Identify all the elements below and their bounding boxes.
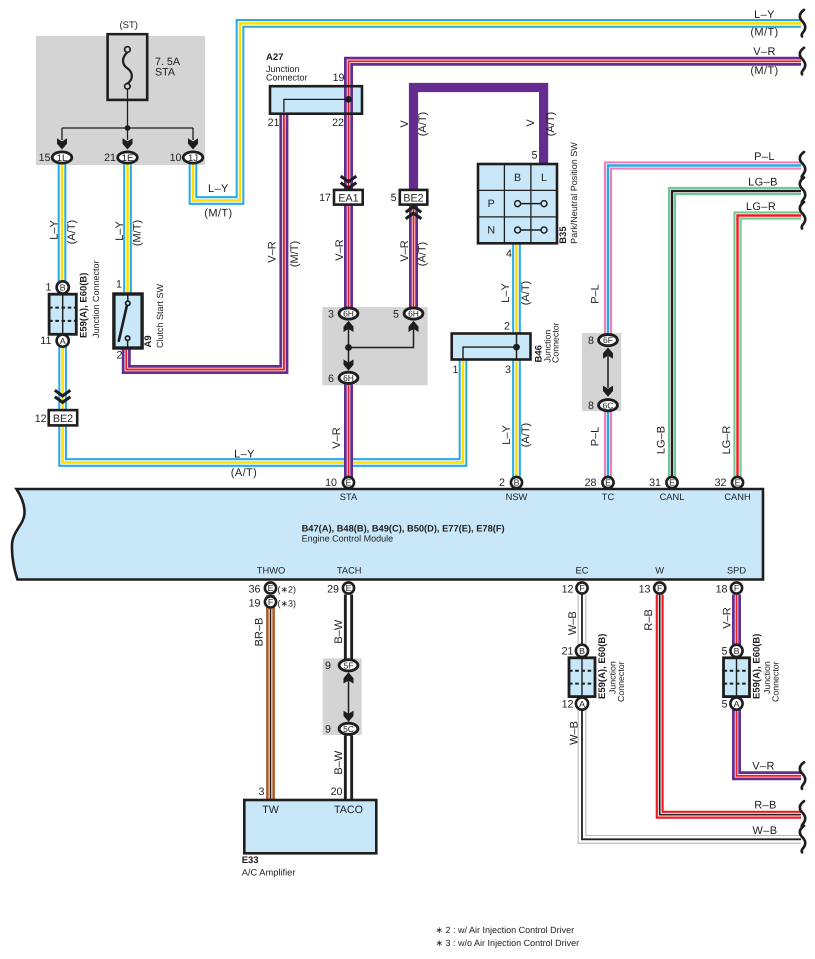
svg-text:(∗2): (∗2)	[278, 585, 297, 595]
svg-text:Connector: Connector	[266, 73, 308, 83]
svg-text:V–R: V–R	[399, 240, 411, 261]
svg-text:(M/T): (M/T)	[289, 241, 301, 267]
svg-text:NSW: NSW	[506, 492, 528, 502]
svg-text:1: 1	[116, 279, 122, 291]
svg-text:(A/T): (A/T)	[66, 220, 78, 244]
svg-text:L–Y: L–Y	[208, 183, 229, 195]
svg-text:(A/T): (A/T)	[520, 281, 532, 305]
svg-text:EC: EC	[576, 566, 589, 576]
svg-text:W–B: W–B	[569, 721, 581, 745]
svg-text:V: V	[525, 119, 537, 127]
svg-text:20: 20	[331, 786, 343, 798]
svg-text:V–R: V–R	[722, 607, 734, 628]
svg-text:3: 3	[328, 309, 334, 321]
svg-text:E: E	[735, 478, 741, 488]
svg-text:L–Y: L–Y	[500, 283, 512, 303]
svg-text:5: 5	[532, 150, 538, 162]
svg-text:Connector: Connector	[616, 661, 626, 702]
svg-text:E: E	[346, 478, 352, 488]
svg-text:21: 21	[562, 645, 574, 657]
svg-text:V–R: V–R	[753, 46, 776, 58]
svg-text:P–L: P–L	[590, 284, 602, 304]
svg-text:5C: 5C	[343, 724, 354, 734]
svg-text:LG–R: LG–R	[721, 426, 733, 455]
svg-text:19: 19	[333, 72, 345, 84]
svg-text:A27: A27	[266, 52, 283, 63]
svg-text:(A/T): (A/T)	[520, 423, 532, 447]
svg-text:SPD: SPD	[727, 566, 746, 576]
svg-text:TW: TW	[262, 804, 280, 816]
svg-text:(M/T): (M/T)	[750, 65, 778, 77]
svg-text:R–B: R–B	[754, 800, 777, 812]
svg-text:R–B: R–B	[643, 609, 655, 630]
svg-text:B: B	[60, 283, 66, 293]
svg-text:A: A	[60, 336, 66, 346]
svg-text:A/C Amplifier: A/C Amplifier	[242, 868, 296, 878]
svg-text:W–B: W–B	[752, 825, 777, 837]
svg-text:V–R: V–R	[752, 761, 775, 773]
svg-text:BE2: BE2	[53, 413, 73, 425]
svg-text:1J: 1J	[188, 153, 198, 164]
svg-text:L: L	[541, 172, 547, 184]
svg-text:5: 5	[722, 698, 728, 710]
svg-text:1L: 1L	[57, 153, 68, 164]
svg-text:(∗3): (∗3)	[278, 598, 297, 608]
svg-text:TACO: TACO	[334, 804, 363, 816]
svg-text:CANL: CANL	[660, 492, 685, 502]
svg-text:9: 9	[325, 724, 331, 736]
svg-text:Junction Connector: Junction Connector	[91, 260, 101, 338]
svg-text:∗ 2 : w/ Air Injection Control: ∗ 2 : w/ Air Injection Control Driver	[436, 925, 575, 935]
svg-text:B: B	[514, 478, 520, 488]
svg-text:5: 5	[393, 309, 399, 321]
svg-text:2: 2	[117, 350, 123, 362]
svg-text:A9: A9	[143, 335, 154, 347]
svg-text:F: F	[579, 583, 585, 593]
svg-text:6F: 6F	[603, 335, 613, 345]
svg-text:32: 32	[715, 477, 727, 489]
svg-text:6H: 6H	[408, 309, 419, 319]
svg-text:5: 5	[391, 192, 397, 204]
svg-text:L–Y: L–Y	[754, 9, 775, 21]
svg-text:12: 12	[562, 698, 574, 710]
svg-text:V–R: V–R	[267, 241, 279, 262]
svg-text:22: 22	[332, 117, 344, 129]
svg-text:LG–B: LG–B	[748, 177, 778, 189]
svg-text:(M/T): (M/T)	[132, 220, 144, 246]
svg-text:Engine Control Module: Engine Control Module	[302, 534, 394, 544]
svg-text:Connector: Connector	[770, 661, 780, 702]
svg-text:LG–R: LG–R	[746, 201, 776, 213]
svg-text:STA: STA	[155, 67, 176, 79]
svg-text:BE2: BE2	[403, 193, 423, 205]
svg-text:31: 31	[649, 477, 661, 489]
svg-text:1E: 1E	[122, 153, 134, 164]
svg-text:(M/T): (M/T)	[750, 27, 778, 39]
svg-text:E: E	[605, 478, 611, 488]
svg-text:E59(A), E60(B): E59(A), E60(B)	[597, 634, 608, 699]
svg-text:∗ 3 : w/o Air Injection Contro: ∗ 3 : w/o Air Injection Control Driver	[436, 938, 580, 948]
svg-text:10: 10	[325, 477, 337, 489]
svg-text:36: 36	[249, 584, 261, 596]
svg-text:1: 1	[45, 282, 51, 294]
svg-text:10: 10	[170, 152, 182, 164]
svg-text:E59(A), E60(B): E59(A), E60(B)	[79, 273, 90, 338]
svg-text:17: 17	[319, 192, 331, 204]
svg-text:THWO: THWO	[257, 566, 285, 576]
svg-text:W: W	[655, 566, 664, 576]
svg-text:4: 4	[506, 248, 512, 260]
svg-text:B35: B35	[558, 226, 569, 244]
svg-text:STA: STA	[340, 492, 358, 502]
svg-text:B–W: B–W	[333, 619, 345, 643]
svg-text:(A/T): (A/T)	[417, 242, 429, 266]
svg-text:8: 8	[588, 335, 594, 347]
svg-text:F: F	[657, 583, 663, 593]
svg-text:E: E	[268, 583, 274, 593]
svg-text:A: A	[579, 699, 585, 709]
svg-text:P–L: P–L	[754, 151, 775, 163]
svg-text:TACH: TACH	[337, 566, 362, 576]
svg-text:L–Y: L–Y	[114, 221, 126, 241]
svg-text:Connector: Connector	[551, 322, 561, 363]
svg-text:A: A	[734, 699, 740, 709]
svg-text:6H: 6H	[343, 373, 354, 383]
svg-text:CANH: CANH	[724, 492, 750, 502]
svg-text:B: B	[579, 646, 585, 656]
svg-text:B: B	[734, 646, 740, 656]
svg-text:13: 13	[639, 584, 651, 596]
svg-text:5: 5	[722, 645, 728, 657]
svg-text:LG–B: LG–B	[656, 426, 668, 454]
svg-text:P: P	[488, 198, 495, 210]
svg-text:28: 28	[585, 477, 597, 489]
svg-text:(A/T): (A/T)	[417, 112, 429, 136]
svg-text:12: 12	[35, 413, 47, 425]
svg-text:BR–B: BR–B	[254, 618, 266, 647]
svg-text:L–Y: L–Y	[234, 449, 255, 461]
svg-text:21: 21	[268, 117, 280, 129]
svg-text:21: 21	[104, 152, 116, 164]
svg-text:E59(A), E60(B): E59(A), E60(B)	[752, 634, 763, 699]
svg-text:11: 11	[40, 335, 51, 347]
svg-text:E33: E33	[242, 855, 259, 866]
svg-text:F: F	[268, 597, 274, 607]
svg-text:5F: 5F	[344, 660, 354, 670]
svg-text:E: E	[346, 583, 352, 593]
svg-text:E: E	[669, 478, 675, 488]
svg-text:1: 1	[453, 364, 459, 376]
svg-text:3: 3	[505, 364, 511, 376]
svg-text:8: 8	[588, 400, 594, 412]
svg-text:B47(A), B48(B), B49(C), B50(D): B47(A), B48(B), B49(C), B50(D), E77(E), …	[302, 524, 505, 534]
svg-text:L–Y: L–Y	[49, 220, 61, 240]
svg-text:TC: TC	[602, 492, 615, 502]
svg-text:B: B	[514, 172, 521, 184]
svg-text:6: 6	[328, 373, 334, 385]
svg-text:3: 3	[259, 786, 265, 798]
svg-text:B–W: B–W	[333, 750, 345, 774]
svg-text:V–R: V–R	[334, 239, 346, 260]
svg-text:V: V	[399, 120, 411, 128]
svg-text:Park/Neutral Position SW: Park/Neutral Position SW	[569, 142, 579, 244]
svg-text:(ST): (ST)	[120, 20, 138, 31]
svg-text:18: 18	[716, 584, 728, 596]
svg-text:2: 2	[499, 477, 505, 489]
svg-text:Clutch Start SW: Clutch Start SW	[155, 283, 165, 348]
svg-text:P–L: P–L	[590, 427, 602, 447]
svg-text:9: 9	[325, 660, 331, 672]
svg-text:EA1: EA1	[338, 193, 358, 205]
svg-text:(A/T): (A/T)	[231, 467, 257, 479]
svg-text:15: 15	[39, 152, 51, 164]
svg-text:V–R: V–R	[331, 427, 343, 448]
svg-text:W–B: W–B	[567, 611, 579, 635]
svg-text:29: 29	[327, 584, 339, 596]
svg-text:(M/T): (M/T)	[204, 208, 232, 220]
svg-text:L–Y: L–Y	[501, 425, 513, 445]
svg-text:19: 19	[249, 597, 261, 609]
svg-text:6C: 6C	[603, 400, 614, 410]
svg-text:2: 2	[504, 321, 510, 333]
svg-text:(A/T): (A/T)	[545, 112, 557, 136]
svg-text:12: 12	[562, 584, 574, 596]
svg-text:6H: 6H	[343, 309, 354, 319]
svg-text:N: N	[487, 225, 495, 237]
svg-text:F: F	[734, 583, 740, 593]
